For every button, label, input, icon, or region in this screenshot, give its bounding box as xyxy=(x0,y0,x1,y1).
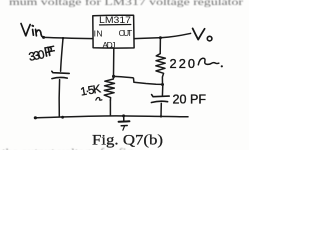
svg-text:mum voltage for LM317 voltage: mum voltage for LM317 voltage regulator xyxy=(9,0,244,8)
junction dot ground on rail xyxy=(122,114,125,117)
wire output node to resistor R1 xyxy=(159,38,161,54)
capacitor C1 330PF xyxy=(52,71,69,78)
node Vin label xyxy=(21,24,43,38)
svg-text:Fig. Q7(b): Fig. Q7(b) xyxy=(92,132,163,148)
wire down to capacitor C1 xyxy=(61,38,63,71)
wire OUT pin to Vo xyxy=(134,33,191,38)
svg-text:the output voltage for fig: the output voltage for fig xyxy=(2,148,134,150)
ground rail wire xyxy=(35,116,188,118)
resistor R1 220 ohm zigzag xyxy=(156,54,166,85)
value label 1.5K xyxy=(80,83,103,98)
wire capacitor C1 to ground rail xyxy=(58,80,60,117)
node junction on input wire xyxy=(62,37,64,39)
junction dot at Vin wire start xyxy=(42,36,45,39)
wire capacitor C2 to ground rail xyxy=(160,103,162,116)
node Vo label xyxy=(193,28,212,40)
wire Vin to LM317 IN xyxy=(44,37,93,38)
underline under LM317 xyxy=(100,24,131,26)
junction dot C2 on rail xyxy=(160,115,162,117)
svg-text:IN: IN xyxy=(94,28,103,38)
junction dot C1 on rail xyxy=(61,116,64,119)
wire ADJ pin down xyxy=(113,48,115,76)
svg-text:1·5K: 1·5K xyxy=(80,83,103,98)
small ohm mark under 1.5K xyxy=(96,98,102,101)
capacitor C2 20PF xyxy=(151,95,169,103)
svg-text:20 PF: 20 PF xyxy=(173,93,207,107)
rail left end dot xyxy=(34,116,37,119)
svg-text:OUT: OUT xyxy=(119,28,133,38)
resistor R2 1.5K zigzag xyxy=(104,76,114,100)
value label 330PF xyxy=(27,43,57,64)
svg-text:220: 220 xyxy=(170,56,196,71)
svg-text:LM317: LM317 xyxy=(99,15,131,25)
junction dot at output node xyxy=(159,36,162,39)
ground symbol xyxy=(119,116,130,130)
svg-text:PF: PF xyxy=(43,43,57,60)
wire ADJ node to R1/C2 junction (stepped) xyxy=(114,76,163,84)
junction dot ADJ node xyxy=(112,75,115,78)
wire junction to capacitor C2 xyxy=(161,85,163,97)
ohm squiggle xyxy=(198,58,219,65)
op-amp U1 LM317 box xyxy=(93,15,134,48)
junction dot R1 bottom / C2 top xyxy=(161,83,164,86)
wire R2 to ground rail xyxy=(109,100,111,116)
